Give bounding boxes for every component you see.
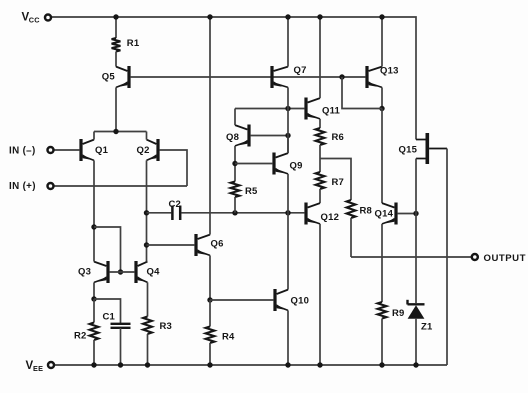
svg-text:Q13: Q13 [380,66,399,77]
svg-text:IN (–): IN (–) [9,146,36,157]
svg-text:Q12: Q12 [321,212,340,223]
svg-text:Q2: Q2 [137,145,150,156]
svg-text:EE: EE [33,364,43,373]
svg-text:C1: C1 [103,312,116,323]
svg-text:Q7: Q7 [294,65,307,76]
svg-text:Q6: Q6 [211,239,224,250]
svg-text:R2: R2 [74,331,87,342]
svg-text:R9: R9 [392,308,405,319]
svg-text:R7: R7 [332,177,345,188]
svg-text:R6: R6 [332,132,345,143]
svg-text:Q10: Q10 [291,296,310,307]
svg-text:R1: R1 [127,38,140,49]
svg-text:R5: R5 [245,186,258,197]
svg-text:Q8: Q8 [226,132,239,143]
svg-text:R4: R4 [222,332,235,343]
svg-text:Q1: Q1 [95,145,109,156]
svg-text:Q9: Q9 [290,161,303,172]
svg-text:R3: R3 [160,321,173,332]
svg-text:R8: R8 [360,206,373,217]
svg-text:Q14: Q14 [375,209,394,220]
svg-text:C2: C2 [169,199,182,210]
svg-text:Q15: Q15 [399,145,418,156]
svg-text:Q4: Q4 [147,267,161,278]
svg-text:Z1: Z1 [421,322,433,333]
svg-text:CC: CC [29,15,40,24]
svg-text:Q11: Q11 [322,106,341,117]
svg-text:Q5: Q5 [102,72,116,83]
svg-text:OUTPUT: OUTPUT [484,253,526,264]
svg-text:IN (+): IN (+) [9,181,36,192]
svg-text:Q3: Q3 [78,267,91,278]
